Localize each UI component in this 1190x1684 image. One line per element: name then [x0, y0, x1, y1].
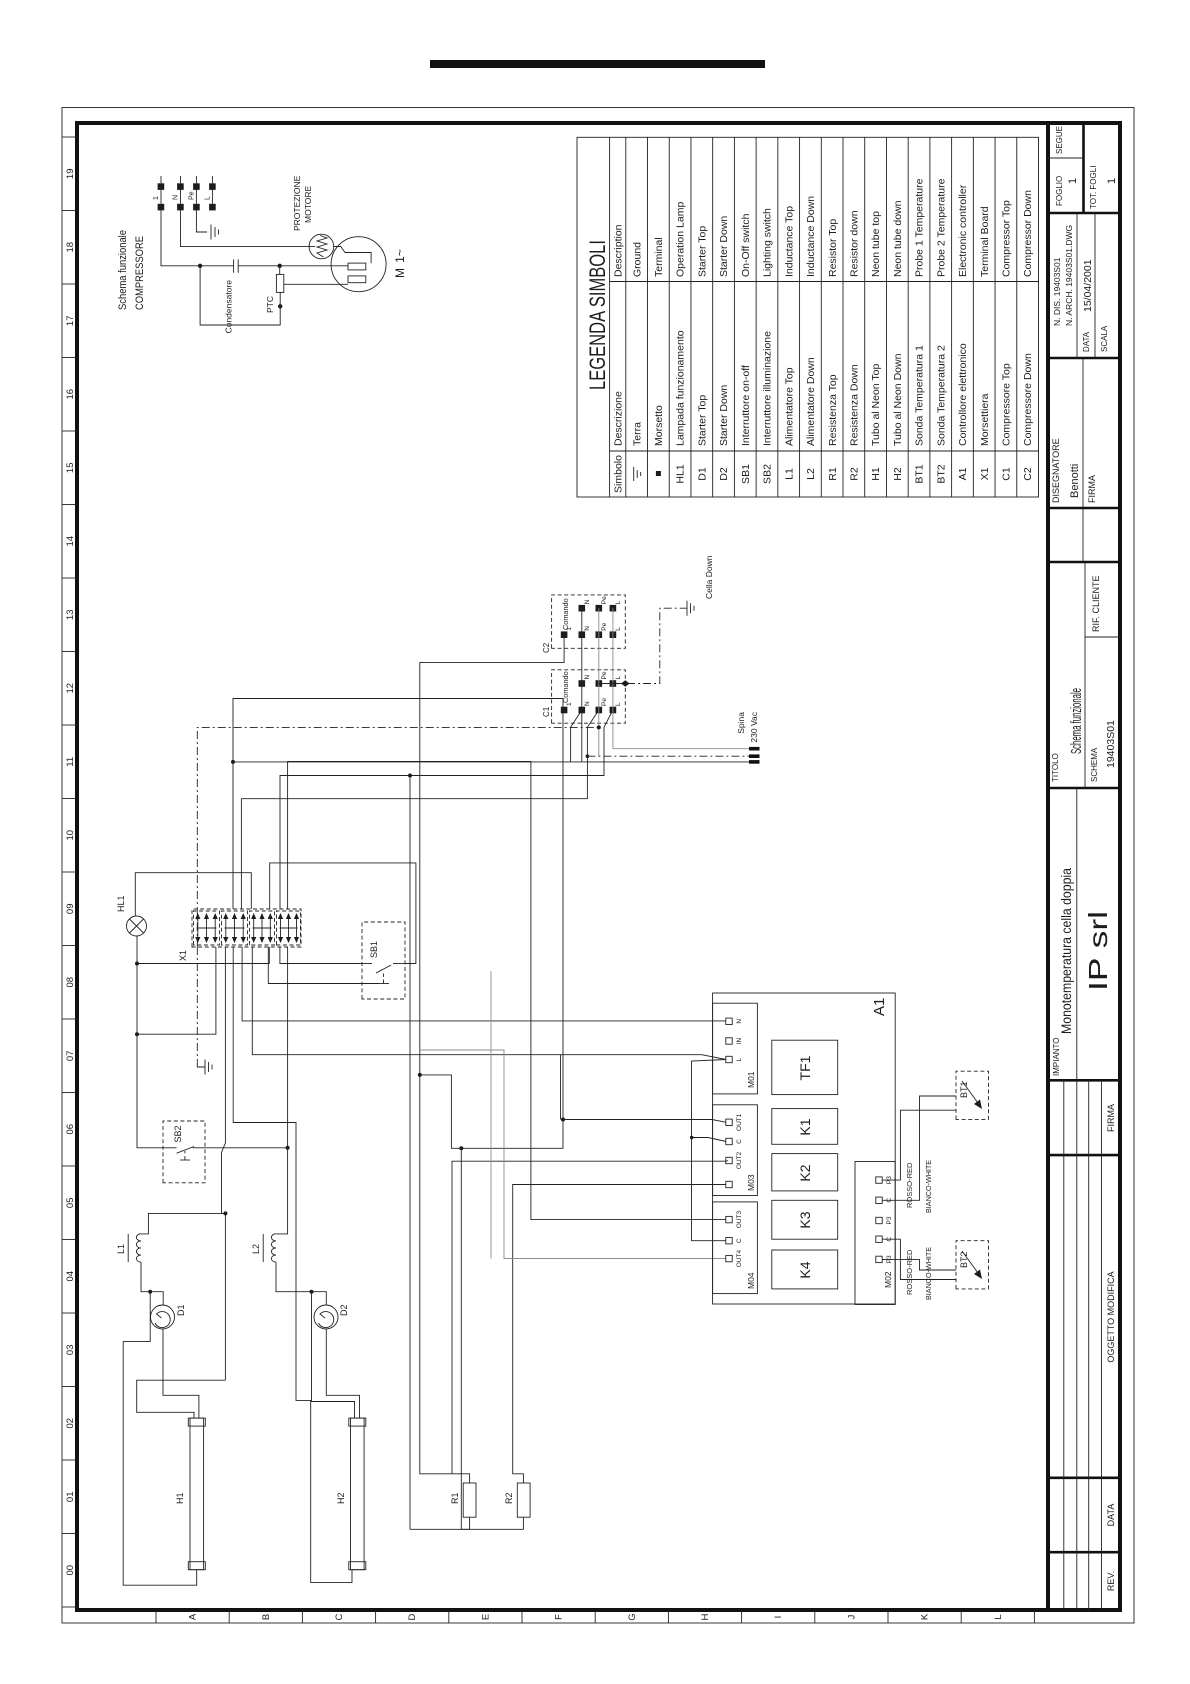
svg-text:1: 1: [566, 702, 573, 706]
svg-text:L2: L2: [251, 1244, 261, 1254]
legend table LEGENDA SIMBOLI: [577, 137, 1039, 497]
svg-text:Comando: Comando: [561, 671, 570, 703]
svg-text:L: L: [993, 1614, 1004, 1619]
wire SB2 out down to bus2: [205, 1147, 288, 1149]
M03 terminals OUT1 C OUT2: [726, 1119, 732, 1125]
wire X1 right y241 to C1-Pe net: [241, 710, 598, 909]
junction PE tee: [597, 725, 601, 729]
dash-dot PE from X1: [197, 727, 599, 947]
svg-text:TOT. FOGLI: TOT. FOGLI: [1089, 166, 1098, 209]
connector M04: [713, 1202, 758, 1294]
wire bus1 to H1 pin2: [137, 1380, 226, 1418]
svg-text:H1: H1: [870, 467, 882, 481]
small empty box: [1048, 561, 1120, 564]
svg-text:IMPIANTO: IMPIANTO: [1052, 1037, 1061, 1076]
svg-text:Terminal: Terminal: [653, 237, 665, 277]
svg-text:HL1: HL1: [675, 464, 687, 483]
junction R1 bottom tee: [408, 774, 412, 778]
wire BT2 rosso-red: [882, 1239, 956, 1279]
wire X1 to lamp/SB2 feed riser: [137, 947, 216, 1034]
svg-text:FOGLIO: FOGLIO: [1055, 176, 1064, 206]
wire aux grey: [490, 971, 492, 1258]
wire L2 left to D2: [276, 1262, 326, 1305]
capacitor Condensatore: [233, 259, 235, 272]
svg-text:Resistor Top: Resistor Top: [827, 219, 839, 277]
svg-text:BIANCO-WHITE: BIANCO-WHITE: [924, 1247, 933, 1300]
svg-text:Compressore Down: Compressore Down: [1022, 353, 1034, 446]
svg-text:SCALA: SCALA: [1100, 325, 1109, 352]
svg-text:Compressore Top: Compressore Top: [1001, 363, 1013, 446]
wire X1 left y242 to M01 N riser: [242, 947, 726, 1021]
svg-text:D1: D1: [696, 467, 708, 481]
svg-text:TF1: TF1: [797, 1055, 813, 1080]
wire D1 left to H1 pin1: [163, 1329, 199, 1418]
svg-text:L1: L1: [116, 1244, 126, 1254]
TITOLO box: [1048, 787, 1120, 790]
svg-text:Schema funzionale: Schema funzionale: [1068, 688, 1085, 754]
svg-text:P3: P3: [886, 1216, 893, 1224]
starter D1: [151, 1304, 187, 1329]
svg-text:14: 14: [65, 536, 76, 547]
N.DIS box: [1048, 357, 1120, 360]
svg-text:16: 16: [65, 389, 76, 400]
wire C2-1 net staircase: [420, 635, 564, 1149]
svg-text:Probe 2 Temperature: Probe 2 Temperature: [935, 178, 947, 277]
probe BT1: [956, 1071, 989, 1119]
wire X1 right y287 to M04 OUT3: [288, 761, 726, 1219]
svg-text:Descrizione: Descrizione: [613, 391, 625, 446]
svg-text:HL1: HL1: [116, 895, 126, 912]
wire X1 right y233 bus to C1-1 net: [233, 699, 563, 910]
svg-text:M03: M03: [746, 1174, 756, 1191]
probe BT2: [956, 1241, 989, 1289]
svg-text:L: L: [615, 627, 622, 631]
svg-text:Tubo al Neon Down: Tubo al Neon Down: [892, 353, 904, 446]
wire M01 L riser: [702, 1055, 726, 1060]
svg-text:Description: Description: [613, 224, 625, 277]
svg-text:Pe: Pe: [601, 698, 608, 706]
junction lamp feed: [135, 1032, 139, 1036]
svg-text:SEGUE: SEGUE: [1055, 126, 1064, 154]
motor main winding: [348, 263, 366, 270]
motor aux winding: [348, 276, 366, 283]
neon tube H1: [175, 1418, 205, 1570]
svg-text:L: L: [615, 702, 622, 706]
svg-text:A1: A1: [957, 467, 969, 480]
svg-text:FIRMA: FIRMA: [1106, 1104, 1116, 1132]
wire pole L: [612, 608, 614, 749]
dash-dot PE to mid ground: [196, 947, 198, 1062]
legend ground symbol: [633, 467, 635, 481]
svg-text:N. ARCH. 19403S01.DWG: N. ARCH. 19403S01.DWG: [1064, 225, 1074, 326]
svg-text:Pe: Pe: [189, 191, 196, 200]
wire bus2 X1/SB2 to L2 riser: [276, 947, 288, 1234]
junction PE diamond: [621, 680, 630, 686]
svg-text:SCHEMA: SCHEMA: [1090, 747, 1099, 782]
compressor terminal block (2 cols x 4 rows): [153, 176, 216, 210]
svg-text:Simbolo: Simbolo: [613, 455, 625, 493]
svg-text:D2: D2: [718, 467, 730, 481]
svg-text:1~: 1~: [393, 249, 407, 263]
legend terminal symbol: [656, 471, 661, 476]
svg-text:06: 06: [65, 1124, 76, 1135]
switch SB2 (lighting): [163, 1121, 205, 1183]
svg-text:Starter Down: Starter Down: [718, 216, 730, 277]
svg-text:N: N: [584, 701, 591, 706]
svg-text:H2: H2: [892, 467, 904, 481]
wire R2 top to M03 4th terminal: [513, 1185, 726, 1484]
connector M02: [855, 1162, 895, 1305]
svg-text:00: 00: [65, 1565, 76, 1576]
dash-dot PE stub to C1 dot: [599, 683, 626, 685]
svg-text:N. DIS. 19403S01: N. DIS. 19403S01: [1052, 257, 1062, 326]
svg-text:Schema funzionale: Schema funzionale: [117, 230, 129, 310]
svg-text:OGGETTO MODIFICA: OGGETTO MODIFICA: [1106, 1271, 1116, 1362]
wire SB1 upper leg to X1: [280, 947, 362, 964]
svg-text:L: L: [615, 600, 622, 604]
starter D2: [314, 1304, 349, 1329]
svg-text:Resistor down: Resistor down: [849, 210, 861, 277]
svg-text:15/04/2001: 15/04/2001: [1082, 259, 1094, 312]
svg-text:IP srl: IP srl: [1083, 911, 1113, 991]
svg-text:05: 05: [65, 1198, 76, 1209]
svg-text:19403S01: 19403S01: [1105, 720, 1117, 768]
terminal strip X1: [178, 909, 301, 961]
svg-text:08: 08: [65, 977, 76, 988]
wire R1 bottom run: [409, 776, 411, 1530]
svg-text:BIANCO-WHITE: BIANCO-WHITE: [924, 1160, 933, 1213]
wire R2 bottom: [461, 1148, 523, 1529]
svg-text:ROSSO-RED: ROSSO-RED: [905, 1249, 914, 1295]
svg-text:Alimentatore Down: Alimentatore Down: [805, 357, 817, 446]
svg-text:Spina: Spina: [736, 712, 746, 734]
svg-text:COMPRESSORE: COMPRESSORE: [134, 236, 146, 310]
svg-text:Morsetto: Morsetto: [653, 405, 665, 446]
relay TF1: [772, 1040, 838, 1094]
ground Cella Down: [687, 555, 714, 615]
DISEGNATORE box: [1048, 507, 1120, 510]
svg-text:Ground: Ground: [631, 242, 643, 277]
wire N to plug: [233, 761, 749, 763]
wire feed to SB2: [137, 1034, 163, 1148]
svg-text:REV.: REV.: [1106, 1571, 1116, 1591]
svg-text:L1: L1: [783, 468, 795, 480]
svg-text:R2: R2: [504, 1492, 514, 1504]
svg-text:C: C: [334, 1613, 345, 1620]
wire R1 top net to M03 OUT2: [452, 1161, 728, 1484]
svg-text:IN: IN: [736, 1037, 743, 1044]
svg-text:Starter Down: Starter Down: [718, 385, 730, 446]
svg-text:D2: D2: [339, 1304, 349, 1316]
wire C-1 net to R1 top net: [420, 1075, 452, 1474]
connector C2 (Comando): [542, 595, 625, 653]
wire SB1 actuator link to X1: [268, 947, 379, 984]
relay K4: [772, 1250, 838, 1289]
frame margin ticks: [62, 1606, 77, 1608]
neon tube H2: [336, 1418, 366, 1570]
svg-text:TITOLO: TITOLO: [1051, 753, 1060, 782]
svg-text:Resistenza Down: Resistenza Down: [849, 364, 861, 446]
wire BT1 rosso-red: [882, 1110, 956, 1180]
svg-text:BT1: BT1: [914, 464, 926, 483]
wire D2 left to H2 pin1: [326, 1329, 359, 1418]
svg-text:10: 10: [65, 830, 76, 841]
svg-text:H2: H2: [336, 1492, 346, 1504]
svg-text:Lighting switch: Lighting switch: [762, 208, 774, 277]
svg-text:Starter Top: Starter Top: [696, 395, 708, 446]
resistor PTC: [276, 274, 283, 292]
page inner thick border frame: [77, 123, 1120, 1610]
resistor R2: [504, 1483, 530, 1517]
svg-text:SB1: SB1: [369, 941, 379, 958]
C1 connector terminals: [561, 707, 568, 714]
wire X1 left y241 to M01 L: [252, 947, 701, 1055]
svg-text:Lampada funzionamento: Lampada funzionamento: [675, 330, 687, 446]
svg-text:M01: M01: [746, 1071, 756, 1088]
connector C1 (Comando): [542, 670, 625, 723]
svg-text:M: M: [393, 268, 407, 278]
svg-text:OUT1: OUT1: [736, 1113, 743, 1131]
svg-text:R1: R1: [827, 467, 839, 481]
wire terminal-Pe to ground: [196, 210, 207, 232]
svg-text:R2: R2: [849, 467, 861, 481]
svg-text:Sonda Temperatura 2: Sonda Temperatura 2: [935, 345, 947, 446]
svg-text:Tubo al Neon Top: Tubo al Neon Top: [870, 364, 882, 446]
junction R2 bottom tee: [459, 1146, 463, 1150]
wire R1 bottom: [410, 1517, 470, 1529]
junction C2-1/R1 tee: [418, 1073, 422, 1077]
svg-text:On-Off switch: On-Off switch: [740, 213, 752, 277]
svg-text:X1: X1: [979, 467, 991, 480]
wire L1 left to D1: [141, 1262, 163, 1305]
svg-text:18: 18: [65, 242, 76, 253]
svg-text:Monotemperatura cella doppia: Monotemperatura cella doppia: [1059, 868, 1074, 1034]
svg-text:LEGENDA SIMBOLI: LEGENDA SIMBOLI: [585, 240, 610, 390]
relay K1: [772, 1109, 838, 1145]
svg-text:230 Vac: 230 Vac: [749, 711, 759, 742]
svg-text:E: E: [480, 1614, 491, 1620]
wire M04-C to M01-L link: [692, 1060, 727, 1241]
svg-text:C2: C2: [542, 642, 551, 653]
junction D2/H2 branch: [310, 1290, 314, 1294]
controller board A1: [713, 993, 896, 1304]
svg-text:09: 09: [65, 904, 76, 915]
svg-text:K: K: [920, 1613, 931, 1620]
svg-text:L: L: [615, 676, 622, 680]
FOGLIO box: [1048, 212, 1120, 215]
switch SB1 (on-off): [362, 922, 405, 999]
svg-text:A1: A1: [871, 998, 888, 1016]
svg-text:Pe: Pe: [601, 671, 608, 679]
svg-text:A: A: [188, 1613, 199, 1620]
svg-text:K4: K4: [797, 1261, 813, 1278]
IMPIANTO box: [1076, 788, 1078, 1080]
svg-text:1: 1: [1106, 178, 1118, 184]
svg-text:Interruttore on-off: Interruttore on-off: [740, 365, 752, 446]
svg-text:1: 1: [153, 196, 160, 200]
svg-text:04: 04: [65, 1271, 76, 1282]
wire pole N: [581, 608, 583, 762]
wire M04 OUT4 net: [420, 1050, 726, 1259]
svg-text:MOTORE: MOTORE: [303, 186, 313, 223]
M01 terminals N IN L: [726, 1018, 732, 1024]
wire PTC to node B: [279, 266, 281, 275]
svg-text:D1: D1: [176, 1304, 186, 1316]
wire H1 left cap loop: [123, 1292, 197, 1586]
wire hop over SB2 drop: [222, 1143, 226, 1380]
svg-text:Inductance Top: Inductance Top: [783, 206, 795, 277]
ground (compressor): [210, 225, 212, 240]
svg-text:C1: C1: [542, 706, 551, 717]
junction node A: [198, 264, 202, 268]
svg-text:N: N: [584, 675, 591, 680]
wire OUT1 link to M01-L drop: [560, 1055, 562, 1120]
svg-text:FIRMA: FIRMA: [1087, 475, 1097, 503]
svg-text:OUT3: OUT3: [736, 1211, 743, 1229]
svg-text:M02: M02: [883, 1271, 893, 1288]
wire Pe to plug dash-dot: [587, 755, 749, 757]
revision table row lines: [1063, 1080, 1065, 1610]
connector M03: [713, 1105, 758, 1196]
wire protector to motor: [334, 247, 371, 264]
motor M 1~: [331, 237, 386, 292]
svg-text:M04: M04: [746, 1272, 756, 1289]
svg-text:Neon tube top: Neon tube top: [870, 211, 882, 277]
thermal protector PROTEZIONE MOTORE: [309, 234, 334, 259]
svg-text:OUT2: OUT2: [736, 1151, 743, 1169]
svg-text:SB2: SB2: [173, 1125, 183, 1142]
junction common link tee: [690, 1136, 694, 1140]
svg-text:Terra: Terra: [631, 422, 643, 446]
svg-text:Benotti: Benotti: [1069, 464, 1081, 498]
dash-dot to Cella Down ground: [627, 608, 687, 683]
svg-text:Compressor Down: Compressor Down: [1022, 190, 1034, 277]
svg-text:SB1: SB1: [740, 464, 752, 484]
svg-text:N: N: [736, 1019, 743, 1024]
junction OUT1 tee: [561, 1118, 565, 1122]
svg-text:PROTEZIONE: PROTEZIONE: [292, 175, 302, 231]
svg-text:X1: X1: [178, 950, 188, 961]
svg-text:Controllore elettronico: Controllore elettronico: [957, 343, 969, 446]
resistor R1: [450, 1483, 476, 1517]
wire X1 right y280 to C1-L/R1 net: [280, 710, 613, 909]
svg-text:Alimentatore Top: Alimentatore Top: [783, 367, 795, 446]
wire L to plug: [613, 748, 749, 750]
svg-text:F: F: [554, 1614, 565, 1620]
svg-text:Resistenza Top: Resistenza Top: [827, 374, 839, 446]
junction node B: [278, 264, 282, 268]
wire pole Pe: [598, 608, 600, 756]
svg-text:Comando: Comando: [561, 598, 570, 630]
junction lamp feed tee: [135, 962, 139, 966]
svg-text:02: 02: [65, 1418, 76, 1429]
svg-text:RIF. CLIENTE: RIF. CLIENTE: [1091, 575, 1101, 632]
svg-text:11: 11: [65, 757, 76, 767]
svg-text:19: 19: [65, 169, 76, 180]
svg-text:I: I: [773, 1616, 784, 1619]
svg-text:DATA: DATA: [1082, 331, 1091, 352]
svg-text:Sonda Temperatura 1: Sonda Temperatura 1: [914, 345, 926, 446]
svg-text:K1: K1: [797, 1118, 813, 1135]
svg-text:L2: L2: [805, 468, 817, 480]
svg-text:OUT4: OUT4: [736, 1250, 743, 1268]
svg-text:J: J: [846, 1614, 857, 1619]
ground (mid PE): [197, 1060, 212, 1075]
wire capacitor to motor node: [238, 265, 348, 267]
condenser loop wire: [200, 266, 280, 325]
svg-text:Pe: Pe: [601, 622, 608, 630]
wire BT1 bianco-white: [882, 1096, 956, 1200]
svg-text:K2: K2: [797, 1164, 813, 1181]
svg-text:H1: H1: [175, 1492, 185, 1504]
wire terminal-N to motor protector: [181, 210, 310, 246]
relay K3: [772, 1200, 838, 1239]
svg-text:1: 1: [1067, 178, 1079, 184]
svg-text:1: 1: [566, 627, 573, 631]
svg-text:K3: K3: [797, 1211, 813, 1228]
svg-text:H: H: [700, 1613, 711, 1620]
svg-text:N: N: [584, 599, 591, 604]
inductor L2: [251, 1234, 276, 1262]
scan artifact bar: [430, 60, 765, 68]
svg-text:ROSSO-RED: ROSSO-RED: [905, 1162, 914, 1208]
junction Pe net: [586, 754, 590, 758]
svg-text:Compressor Top: Compressor Top: [1001, 200, 1013, 277]
svg-text:PTC: PTC: [265, 296, 275, 313]
svg-text:Operation Lamp: Operation Lamp: [675, 202, 687, 277]
M04 terminals OUT3 C OUT4: [726, 1216, 732, 1222]
revision table column lines: [1048, 1551, 1120, 1554]
svg-text:R1: R1: [450, 1492, 460, 1504]
C2 connector terminals: [561, 631, 568, 638]
svg-text:G: G: [627, 1613, 638, 1620]
wire lamp left to SB2 feed riser: [136, 936, 138, 1034]
svg-text:C2: C2: [1022, 467, 1034, 481]
wire C1-N tap: [571, 710, 582, 762]
svg-text:03: 03: [65, 1345, 76, 1356]
wire M03 C tap to common link: [692, 1138, 726, 1142]
svg-text:Neon tube down: Neon tube down: [892, 200, 904, 277]
svg-text:Pe: Pe: [601, 596, 608, 604]
svg-text:L: L: [736, 1057, 743, 1061]
svg-text:B: B: [261, 1614, 272, 1620]
plug Spina 230 Vac: [736, 711, 760, 763]
svg-text:DATA: DATA: [1106, 1504, 1116, 1527]
svg-text:C: C: [736, 1139, 743, 1144]
wire terminal-1 to capacitor branch: [161, 210, 234, 265]
svg-text:L: L: [205, 196, 212, 200]
svg-text:BT2: BT2: [935, 464, 947, 483]
wire lamp right to X1: [135, 873, 251, 916]
svg-text:15: 15: [65, 463, 76, 474]
wire bus1 X1 to H1 area: [224, 947, 226, 1143]
svg-text:07: 07: [65, 1051, 76, 1062]
junction node C: [278, 304, 282, 308]
svg-text:Terminal Board: Terminal Board: [979, 206, 991, 277]
svg-text:N: N: [584, 626, 591, 631]
svg-text:17: 17: [65, 316, 76, 327]
svg-text:Probe 1 Temperature: Probe 1 Temperature: [914, 178, 926, 277]
svg-text:DISEGNATORE: DISEGNATORE: [1051, 438, 1061, 503]
svg-text:13: 13: [65, 610, 76, 621]
wire M03 OUT1 riser: [563, 1120, 726, 1123]
svg-text:Inductance Down: Inductance Down: [805, 196, 817, 277]
svg-text:C: C: [736, 1238, 743, 1243]
M02 terminals: [876, 1177, 882, 1183]
junction D1/H1cap branch: [148, 1290, 152, 1294]
title block strip top edge: [1046, 123, 1050, 1610]
connector M01: [713, 1003, 758, 1094]
